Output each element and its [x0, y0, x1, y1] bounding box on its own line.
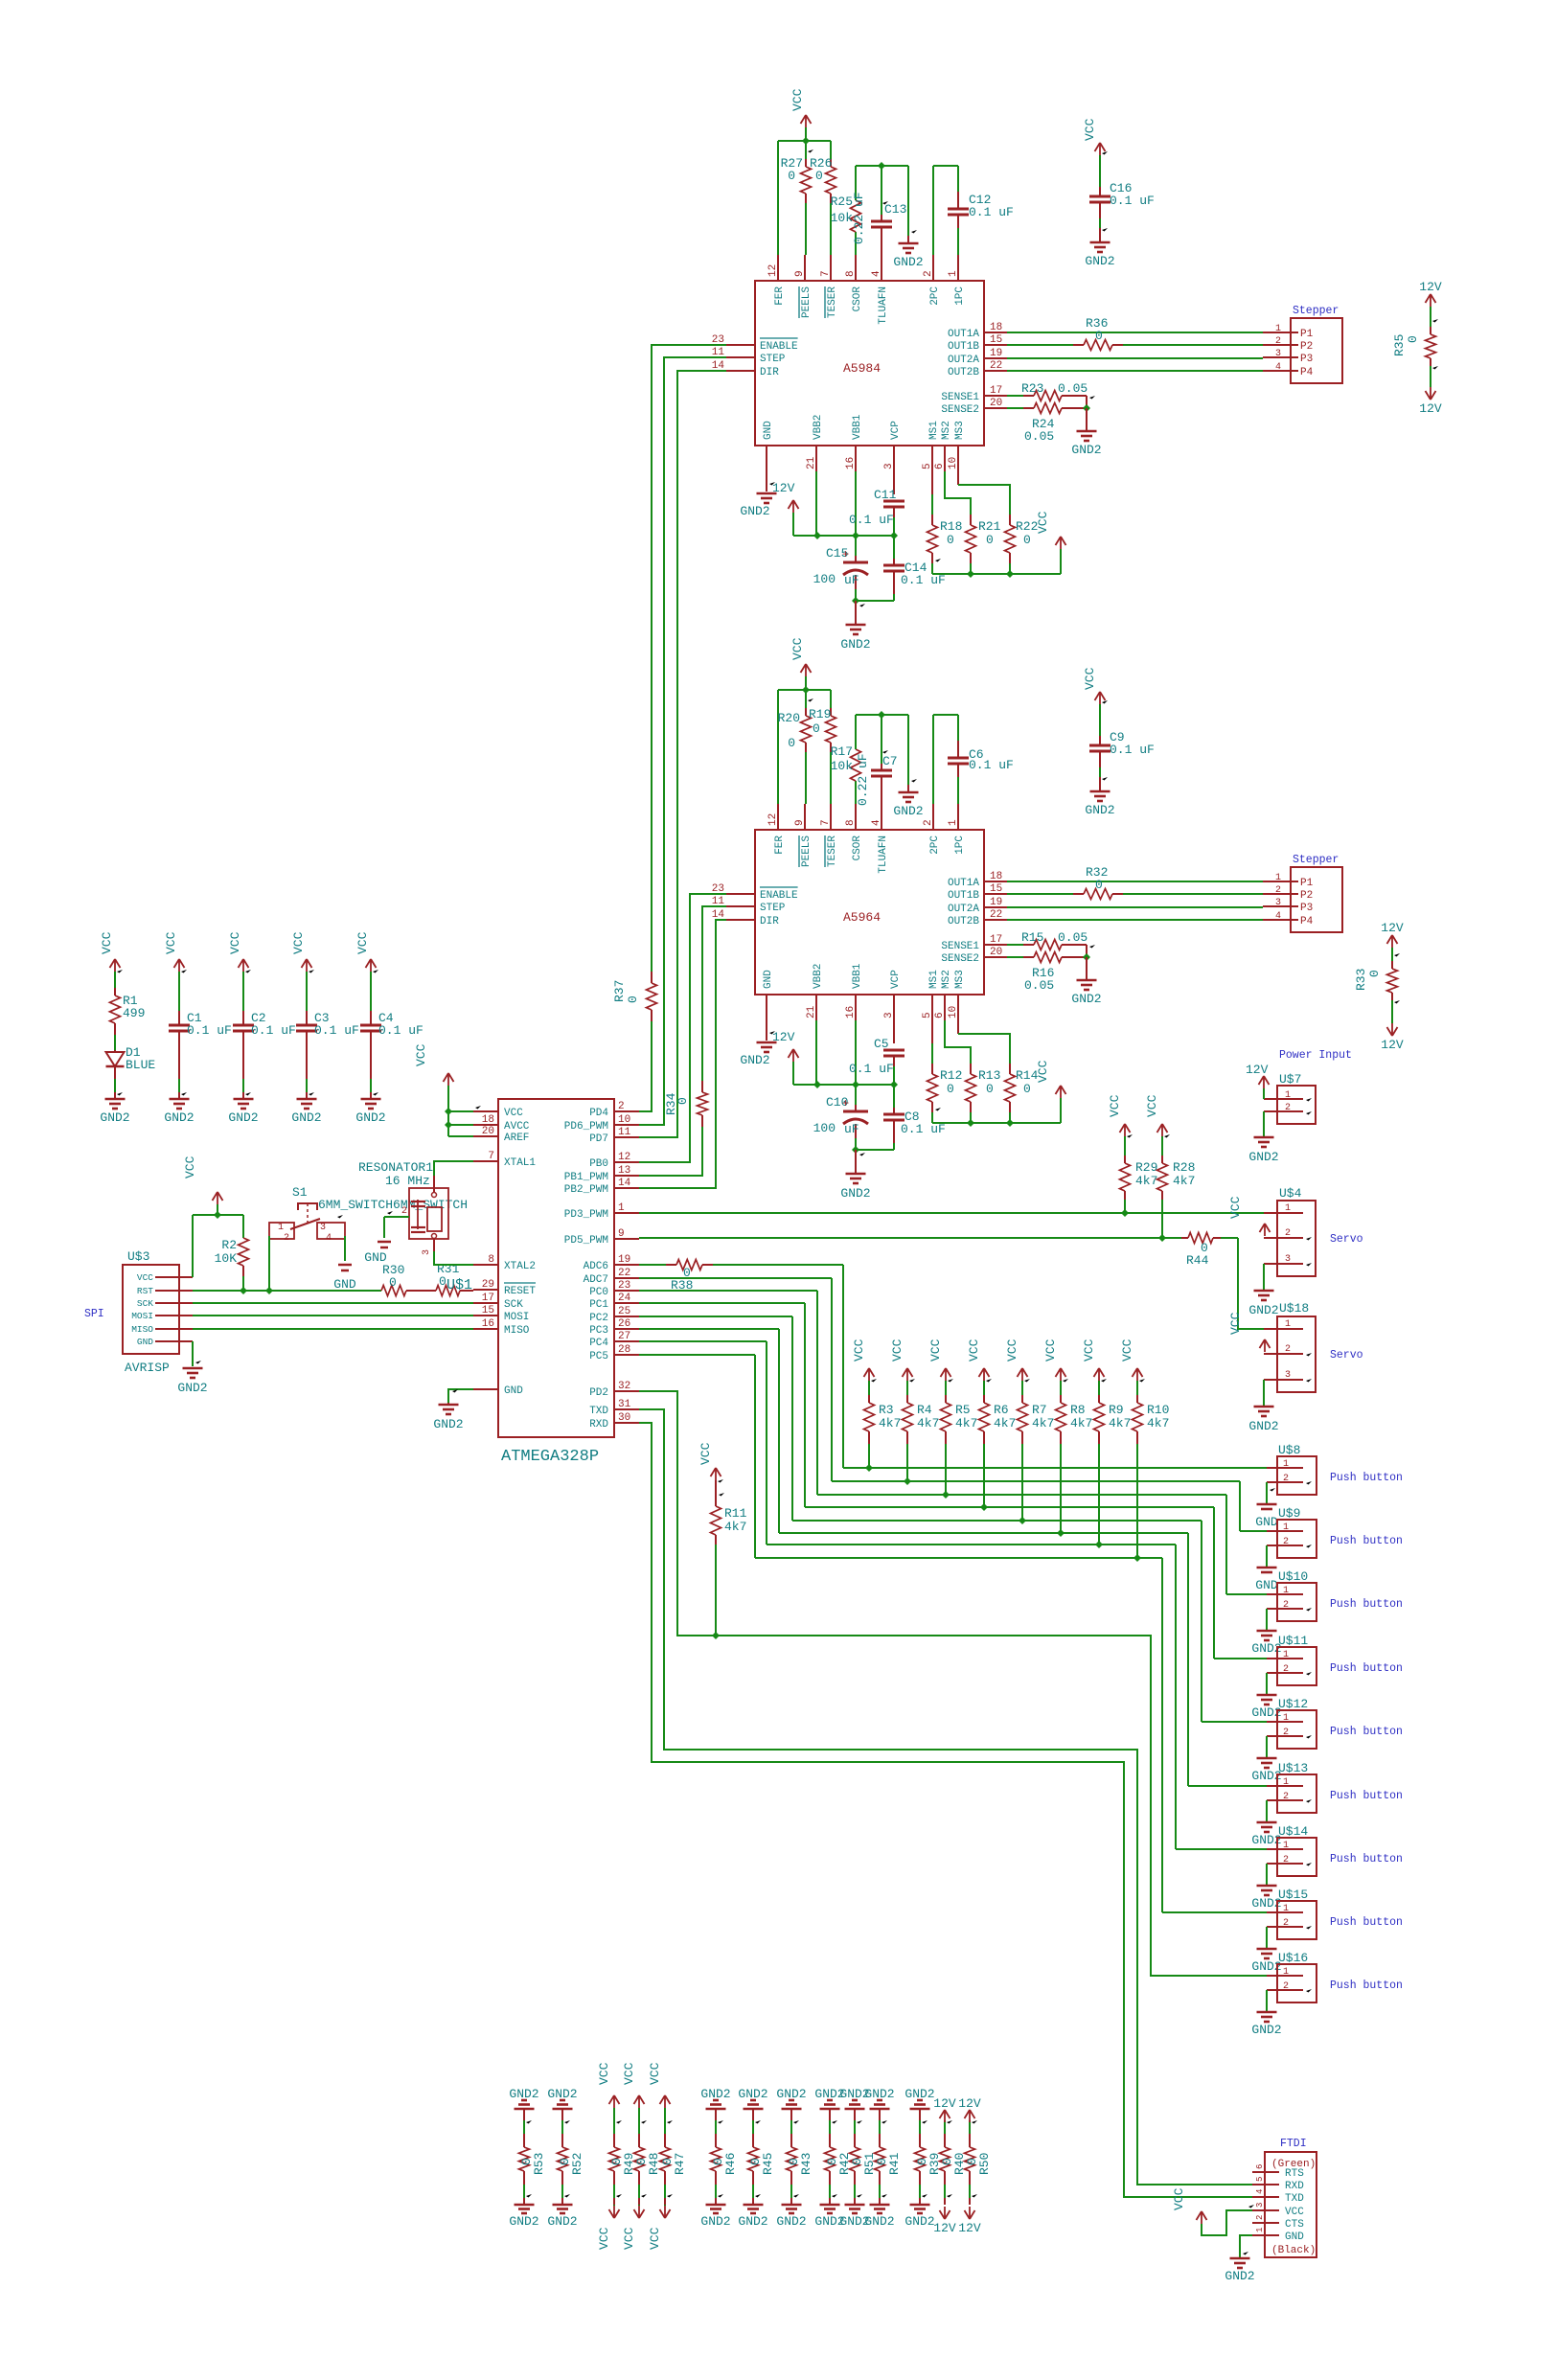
svg-text:GND2: GND2 [228, 1110, 258, 1125]
svg-text:4: 4 [326, 1233, 332, 1244]
svg-text:XTAL1: XTAL1 [504, 1157, 536, 1169]
svg-text:0: 0 [675, 1097, 690, 1105]
svg-text:2: 2 [401, 1206, 407, 1217]
svg-text:499: 499 [123, 1006, 145, 1020]
svg-text:Push button: Push button [1330, 1472, 1403, 1484]
svg-text:GND: GND [137, 1337, 153, 1347]
svg-text:GND2: GND2 [893, 804, 923, 818]
svg-text:GND2: GND2 [840, 1186, 870, 1201]
svg-text:30: 30 [618, 1412, 630, 1424]
svg-text:R13: R13 [978, 1068, 1000, 1083]
svg-text:STEP: STEP [760, 354, 786, 365]
svg-text:2: 2 [1275, 885, 1281, 896]
svg-text:STEP: STEP [760, 903, 786, 914]
svg-text:VCC: VCC [890, 1339, 904, 1362]
svg-text:TESER: TESER [827, 835, 838, 867]
svg-text:12V: 12V [958, 2096, 981, 2111]
svg-text:GND2: GND2 [893, 255, 923, 269]
svg-text:18: 18 [990, 322, 1002, 333]
svg-text:2: 2 [1255, 2215, 1265, 2220]
svg-text:GND: GND [333, 1277, 356, 1292]
svg-text:PEELS: PEELS [801, 286, 813, 318]
svg-text:18: 18 [990, 871, 1002, 882]
svg-text:TLUAFN: TLUAFN [878, 835, 889, 874]
svg-text:0.1 uF: 0.1 uF [378, 1023, 424, 1038]
svg-text:1: 1 [948, 270, 959, 277]
svg-text:GND2: GND2 [1248, 1419, 1278, 1433]
svg-text:Push button: Push button [1330, 1662, 1403, 1675]
svg-text:1: 1 [1283, 1904, 1289, 1914]
svg-text:AVRISP: AVRISP [125, 1361, 170, 1375]
svg-text:3: 3 [1255, 2203, 1265, 2208]
svg-text:DIR: DIR [760, 916, 779, 927]
svg-text:0: 0 [1367, 970, 1382, 977]
svg-text:29: 29 [482, 1279, 494, 1291]
svg-text:U$18: U$18 [1279, 1301, 1309, 1316]
svg-text:VCC: VCC [1145, 1094, 1159, 1117]
svg-text:12V: 12V [933, 2221, 956, 2235]
svg-text:0: 0 [986, 533, 994, 547]
svg-text:9: 9 [794, 819, 806, 826]
svg-text:12V: 12V [772, 481, 795, 495]
svg-text:15: 15 [990, 334, 1002, 346]
svg-text:PC0: PC0 [589, 1287, 608, 1298]
svg-text:GND2: GND2 [1085, 254, 1114, 268]
svg-text:RTS: RTS [1285, 2168, 1304, 2180]
svg-text:11: 11 [618, 1127, 631, 1138]
svg-text:VCC: VCC [1108, 1094, 1122, 1117]
svg-text:R50: R50 [977, 2153, 992, 2175]
svg-text:4k7: 4k7 [724, 1520, 746, 1534]
svg-text:0.1 uF: 0.1 uF [901, 573, 946, 587]
svg-text:1: 1 [618, 1202, 625, 1214]
svg-text:0: 0 [1095, 878, 1103, 892]
svg-text:0: 0 [815, 169, 823, 183]
svg-text:R28: R28 [1173, 1160, 1195, 1175]
svg-text:25: 25 [618, 1306, 630, 1317]
svg-text:VCC: VCC [100, 931, 114, 954]
svg-text:VCC: VCC [1285, 2207, 1304, 2218]
svg-text:R11: R11 [724, 1506, 747, 1521]
svg-text:31: 31 [618, 1399, 631, 1410]
svg-text:0: 0 [1406, 335, 1420, 343]
svg-text:VCC: VCC [1120, 1339, 1134, 1362]
svg-text:RXD: RXD [1285, 2181, 1304, 2192]
svg-text:10k: 10k [831, 211, 854, 225]
svg-text:1: 1 [1283, 1713, 1289, 1724]
svg-text:0.05: 0.05 [1058, 930, 1088, 945]
svg-text:4: 4 [871, 270, 882, 277]
svg-text:6: 6 [934, 1012, 946, 1018]
svg-text:0.1 uF: 0.1 uF [969, 758, 1014, 772]
svg-text:4: 4 [871, 819, 882, 826]
svg-text:0.05: 0.05 [1024, 978, 1054, 993]
svg-text:0.1 uF: 0.1 uF [251, 1023, 296, 1038]
svg-text:3: 3 [883, 463, 895, 469]
svg-text:32: 32 [618, 1381, 630, 1392]
svg-text:21: 21 [806, 456, 817, 469]
svg-text:0: 0 [626, 995, 640, 1003]
svg-text:3: 3 [1285, 1254, 1291, 1265]
svg-text:VCC: VCC [648, 2227, 662, 2250]
svg-text:VCC: VCC [164, 931, 178, 954]
svg-text:C13: C13 [884, 202, 906, 217]
svg-text:VCC: VCC [790, 637, 805, 660]
svg-text:R46: R46 [723, 2153, 738, 2175]
svg-text:R21: R21 [978, 519, 1001, 534]
svg-text:FTDI: FTDI [1280, 2138, 1307, 2150]
svg-text:VCC: VCC [1228, 1196, 1243, 1219]
svg-text:3: 3 [1275, 898, 1281, 908]
svg-text:GND2: GND2 [700, 2214, 730, 2229]
svg-text:12V: 12V [1381, 921, 1404, 935]
svg-text:R33: R33 [1354, 969, 1368, 991]
svg-text:12V: 12V [1419, 280, 1442, 294]
svg-text:GND2: GND2 [1225, 2269, 1254, 2283]
svg-text:MS1: MS1 [928, 970, 940, 989]
svg-text:VCC: VCC [1228, 1312, 1243, 1335]
svg-text:1: 1 [1283, 1967, 1289, 1978]
svg-text:R7: R7 [1032, 1403, 1047, 1417]
svg-text:C11: C11 [874, 488, 897, 502]
svg-text:Push button: Push button [1330, 1598, 1403, 1611]
svg-text:GND: GND [1255, 1578, 1278, 1592]
svg-text:4k7: 4k7 [1147, 1416, 1169, 1430]
svg-text:1: 1 [1285, 1090, 1291, 1101]
svg-text:GND2: GND2 [740, 1053, 769, 1067]
svg-text:P3: P3 [1300, 903, 1313, 914]
svg-text:MOSI: MOSI [504, 1312, 529, 1323]
svg-text:U$3: U$3 [127, 1249, 149, 1264]
svg-text:ATMEGA328P: ATMEGA328P [501, 1448, 599, 1466]
svg-text:Stepper: Stepper [1293, 854, 1339, 866]
svg-text:12V: 12V [933, 2096, 956, 2111]
svg-text:4k7: 4k7 [1173, 1174, 1195, 1188]
svg-text:0.1 uF: 0.1 uF [1110, 194, 1155, 208]
svg-text:R52: R52 [570, 2153, 584, 2175]
svg-text:4k7: 4k7 [994, 1416, 1016, 1430]
svg-text:RESET: RESET [504, 1286, 536, 1297]
svg-text:2: 2 [1283, 1792, 1289, 1802]
svg-text:ENABLE: ENABLE [760, 341, 798, 353]
svg-text:R18: R18 [940, 519, 962, 534]
svg-text:SENSE1: SENSE1 [941, 392, 979, 403]
svg-text:P1: P1 [1300, 878, 1314, 889]
svg-text:GND2: GND2 [433, 1417, 463, 1431]
svg-text:MISO: MISO [504, 1325, 530, 1337]
svg-text:Push button: Push button [1330, 1790, 1403, 1802]
svg-text:MS1: MS1 [928, 421, 940, 440]
svg-text:0.1 uF: 0.1 uF [314, 1023, 359, 1038]
svg-text:12V: 12V [772, 1030, 795, 1044]
svg-text:+: + [842, 1097, 849, 1110]
svg-text:U$15: U$15 [1278, 1888, 1308, 1902]
svg-text:2: 2 [618, 1101, 625, 1112]
svg-text:VCC: VCC [355, 931, 370, 954]
svg-text:R41: R41 [887, 2152, 902, 2175]
svg-text:1PC: 1PC [954, 286, 966, 306]
svg-text:R25: R25 [831, 195, 853, 209]
svg-text:R48: R48 [647, 2153, 661, 2175]
svg-text:0: 0 [389, 1275, 397, 1290]
svg-text:0.1 uF: 0.1 uF [849, 513, 894, 527]
svg-text:MS3: MS3 [954, 970, 966, 989]
svg-text:VBB2: VBB2 [813, 415, 824, 440]
svg-text:0.05: 0.05 [1024, 429, 1054, 444]
svg-text:CSOR: CSOR [852, 286, 863, 312]
svg-text:PD7: PD7 [589, 1133, 608, 1145]
svg-text:5: 5 [1255, 2177, 1265, 2182]
svg-text:1PC: 1PC [954, 835, 966, 855]
svg-text:1: 1 [1275, 873, 1281, 883]
svg-text:3: 3 [1285, 1370, 1291, 1381]
svg-text:PEELS: PEELS [801, 835, 813, 867]
svg-text:4: 4 [1255, 2189, 1265, 2194]
svg-text:R8: R8 [1070, 1403, 1086, 1417]
svg-text:GND: GND [763, 421, 774, 440]
svg-text:R47: R47 [673, 2153, 687, 2175]
svg-text:PC4: PC4 [589, 1338, 608, 1349]
svg-text:P4: P4 [1300, 916, 1314, 927]
svg-text:2: 2 [1283, 1474, 1289, 1484]
svg-text:1: 1 [1283, 1650, 1289, 1660]
svg-text:SENSE2: SENSE2 [941, 953, 979, 965]
svg-text:2: 2 [923, 270, 934, 277]
svg-text:4k7: 4k7 [1109, 1416, 1131, 1430]
svg-text:0: 0 [1023, 533, 1031, 547]
svg-text:0: 0 [788, 736, 795, 750]
svg-text:P2: P2 [1300, 890, 1313, 902]
svg-text:10: 10 [948, 457, 959, 469]
svg-text:TXD: TXD [1285, 2193, 1304, 2205]
svg-text:26: 26 [618, 1318, 630, 1330]
svg-text:R3: R3 [879, 1403, 894, 1417]
svg-text:OUT2A: OUT2A [948, 904, 979, 915]
svg-text:4: 4 [1275, 362, 1281, 373]
svg-text:GND: GND [1285, 2231, 1304, 2243]
svg-text:OUT1B: OUT1B [948, 890, 979, 902]
svg-text:VCC: VCC [928, 1339, 943, 1362]
svg-text:RESONATOR1: RESONATOR1 [358, 1160, 433, 1175]
svg-text:0.05: 0.05 [1058, 381, 1088, 396]
svg-text:FER: FER [774, 286, 786, 306]
svg-text:R44: R44 [1186, 1253, 1209, 1268]
svg-text:U$7: U$7 [1279, 1072, 1301, 1087]
svg-text:MISO: MISO [131, 1324, 153, 1335]
svg-text:1: 1 [1255, 2228, 1265, 2232]
svg-text:9: 9 [618, 1228, 625, 1240]
svg-text:8: 8 [845, 270, 857, 277]
svg-text:4k7: 4k7 [879, 1416, 901, 1430]
svg-text:13: 13 [618, 1165, 630, 1177]
svg-text:0.1 uF: 0.1 uF [969, 205, 1014, 219]
svg-text:R23: R23 [1021, 381, 1043, 396]
svg-text:PD3_PWM: PD3_PWM [564, 1209, 608, 1221]
svg-text:R45: R45 [761, 2153, 775, 2175]
svg-text:VCC: VCC [967, 1339, 981, 1362]
svg-text:C7: C7 [882, 754, 898, 768]
svg-text:R14: R14 [1016, 1068, 1039, 1083]
svg-text:15: 15 [482, 1305, 494, 1316]
svg-text:OUT2A: OUT2A [948, 355, 979, 366]
svg-text:R29: R29 [1135, 1160, 1157, 1175]
svg-text:SENSE2: SENSE2 [941, 404, 979, 416]
svg-text:12V: 12V [1246, 1063, 1269, 1077]
svg-text:16: 16 [845, 1006, 857, 1018]
svg-text:3: 3 [1275, 349, 1281, 359]
svg-text:R5: R5 [955, 1403, 971, 1417]
svg-text:OUT1A: OUT1A [948, 329, 979, 340]
svg-text:1: 1 [1285, 1319, 1291, 1330]
svg-text:12: 12 [767, 264, 779, 277]
svg-text:U$8: U$8 [1278, 1443, 1300, 1457]
svg-text:PB2_PWM: PB2_PWM [564, 1184, 608, 1196]
svg-text:GND: GND [1255, 1515, 1278, 1529]
svg-text:20: 20 [990, 398, 1002, 409]
svg-text:2: 2 [1285, 1103, 1291, 1113]
svg-text:TXD: TXD [589, 1406, 608, 1417]
svg-text:GND: GND [763, 970, 774, 989]
svg-text:R2: R2 [221, 1238, 237, 1252]
svg-text:GND2: GND2 [864, 2214, 894, 2229]
svg-text:14: 14 [618, 1178, 631, 1189]
svg-text:Push button: Push button [1330, 1853, 1403, 1865]
svg-text:Push button: Push button [1330, 1980, 1403, 1992]
svg-text:PC3: PC3 [589, 1325, 608, 1337]
svg-text:10K: 10K [215, 1251, 238, 1266]
svg-text:GND2: GND2 [904, 2214, 934, 2229]
svg-text:4k7: 4k7 [1032, 1416, 1054, 1430]
svg-text:1: 1 [1285, 1203, 1291, 1214]
svg-text:22: 22 [618, 1268, 630, 1279]
svg-text:PC5: PC5 [589, 1351, 608, 1362]
svg-text:4k7: 4k7 [1135, 1174, 1157, 1188]
svg-text:uF: uF [844, 1122, 859, 1136]
svg-text:0: 0 [439, 1274, 446, 1289]
svg-text:2PC: 2PC [929, 835, 941, 855]
svg-text:18: 18 [482, 1114, 494, 1126]
svg-text:17: 17 [990, 385, 1002, 397]
svg-text:CTS: CTS [1285, 2219, 1304, 2231]
svg-text:PD5_PWM: PD5_PWM [564, 1235, 608, 1247]
svg-text:1: 1 [1283, 1459, 1289, 1470]
svg-text:0: 0 [947, 533, 954, 547]
svg-text:R12: R12 [940, 1068, 962, 1083]
svg-text:GND2: GND2 [164, 1110, 194, 1125]
svg-text:12: 12 [618, 1152, 630, 1163]
svg-text:VCC: VCC [504, 1108, 523, 1119]
svg-text:12V: 12V [1381, 1038, 1404, 1052]
svg-text:VCC: VCC [1005, 1339, 1019, 1362]
svg-text:7: 7 [820, 819, 832, 826]
svg-text:2: 2 [1283, 1537, 1289, 1547]
svg-text:PB1_PWM: PB1_PWM [564, 1172, 608, 1183]
svg-text:17: 17 [990, 934, 1002, 946]
svg-text:R53: R53 [532, 2153, 546, 2175]
svg-text:0: 0 [947, 1082, 954, 1096]
svg-text:4k7: 4k7 [955, 1416, 977, 1430]
svg-text:AREF: AREF [504, 1133, 529, 1144]
svg-text:AVCC: AVCC [504, 1121, 530, 1133]
svg-text:VCP: VCP [890, 421, 902, 440]
svg-text:2: 2 [1285, 1228, 1291, 1239]
svg-text:R19: R19 [809, 707, 831, 721]
svg-text:A5984: A5984 [843, 361, 881, 376]
svg-text:VCC: VCC [852, 1339, 866, 1362]
svg-text:7: 7 [820, 270, 832, 277]
svg-text:GND2: GND2 [1251, 2023, 1281, 2037]
svg-text:R35: R35 [1392, 334, 1407, 356]
svg-text:CSOR: CSOR [852, 835, 863, 861]
svg-text:Servo: Servo [1330, 1233, 1363, 1246]
svg-text:VBB2: VBB2 [813, 964, 824, 989]
svg-text:23: 23 [618, 1280, 630, 1292]
svg-text:VCC: VCC [1083, 118, 1097, 141]
svg-text:2: 2 [923, 819, 934, 826]
svg-text:3: 3 [883, 1012, 895, 1018]
svg-text:4k7: 4k7 [917, 1416, 939, 1430]
svg-text:16: 16 [482, 1318, 494, 1330]
svg-text:P1: P1 [1300, 329, 1314, 340]
svg-text:PD6_PWM: PD6_PWM [564, 1121, 608, 1133]
svg-text:GND2: GND2 [1071, 992, 1101, 1006]
svg-text:17: 17 [482, 1293, 494, 1304]
svg-text:21: 21 [806, 1005, 817, 1018]
svg-text:TLUAFN: TLUAFN [878, 286, 889, 325]
svg-text:VCC: VCC [698, 1442, 713, 1465]
svg-text:2: 2 [1283, 1728, 1289, 1738]
svg-text:16: 16 [845, 457, 857, 469]
svg-text:100: 100 [813, 572, 836, 586]
svg-text:16 MHz: 16 MHz [385, 1174, 430, 1188]
svg-text:2: 2 [1283, 1664, 1289, 1675]
svg-text:9: 9 [794, 270, 806, 277]
svg-text:Power Input: Power Input [1279, 1049, 1352, 1062]
svg-text:ADC7: ADC7 [584, 1274, 608, 1286]
svg-text:U$9: U$9 [1278, 1506, 1300, 1521]
svg-text:VBB1: VBB1 [852, 963, 863, 989]
svg-text:Servo: Servo [1330, 1349, 1363, 1362]
svg-text:28: 28 [618, 1344, 630, 1356]
svg-text:PD4: PD4 [589, 1108, 608, 1119]
svg-text:(Black): (Black) [1271, 2245, 1316, 2256]
svg-text:RST: RST [137, 1286, 153, 1296]
svg-text:P2: P2 [1300, 341, 1313, 353]
svg-text:19: 19 [990, 897, 1002, 908]
svg-text:10k: 10k [831, 759, 854, 773]
svg-text:Push button: Push button [1330, 1916, 1403, 1929]
svg-text:VCC: VCC [183, 1156, 197, 1179]
svg-text:VBB1: VBB1 [852, 414, 863, 440]
svg-text:2: 2 [1275, 336, 1281, 347]
svg-text:4: 4 [1275, 911, 1281, 922]
svg-text:20: 20 [482, 1126, 494, 1137]
svg-text:MS3: MS3 [954, 421, 966, 440]
svg-text:20: 20 [990, 947, 1002, 958]
svg-text:GND: GND [504, 1385, 523, 1397]
svg-text:8: 8 [488, 1254, 494, 1266]
svg-text:GND2: GND2 [1071, 443, 1101, 457]
svg-text:19: 19 [990, 348, 1002, 359]
svg-text:0.22 uF: 0.22 uF [852, 192, 866, 244]
svg-text:GND2: GND2 [740, 504, 769, 518]
svg-text:+: + [842, 548, 849, 561]
svg-text:R15: R15 [1021, 930, 1043, 945]
svg-text:Push button: Push button [1330, 1535, 1403, 1547]
svg-text:VCC: VCC [1082, 1339, 1096, 1362]
svg-text:0.1 uF: 0.1 uF [849, 1062, 894, 1076]
svg-text:6: 6 [934, 463, 946, 469]
